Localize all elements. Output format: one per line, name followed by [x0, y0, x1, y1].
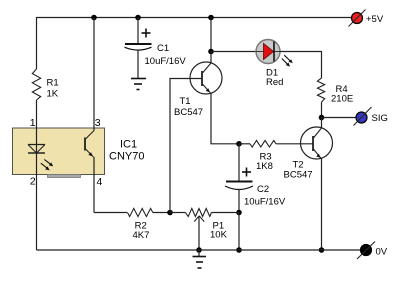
- wire R2 to base node: [153, 212, 170, 214]
- junction dot T2 emitter on 0V rail: [319, 247, 325, 253]
- svg-text:C2: C2: [257, 184, 269, 195]
- resistor R2: [128, 208, 153, 216]
- svg-text:10K: 10K: [210, 230, 228, 241]
- svg-text:4: 4: [97, 176, 103, 188]
- optocoupler IC1 body: [13, 128, 105, 175]
- potentiometer P1: [186, 209, 212, 251]
- svg-text:BC547: BC547: [284, 170, 313, 181]
- wire base node to P1: [170, 212, 186, 214]
- wire 0V rail: [37, 249, 361, 251]
- wire SIG node to T2 collector: [321, 118, 323, 129]
- wire +5V rail to R1: [36, 17, 38, 69]
- junction dot pin3 on +5V rail: [91, 15, 97, 21]
- svg-text:BC547: BC547: [174, 107, 203, 118]
- junction dot C1 on +5V rail: [135, 15, 141, 21]
- wire C2 node to 0V rail: [238, 213, 240, 251]
- wire C1 to ground: [137, 50, 139, 79]
- svg-text:4K7: 4K7: [133, 230, 150, 241]
- IC1 light arrows: [41, 159, 53, 170]
- svg-text:T1: T1: [180, 96, 191, 107]
- transistor T2: [301, 127, 333, 159]
- svg-text:10uF/16V: 10uF/16V: [244, 197, 286, 208]
- transistor T1: [190, 62, 222, 94]
- wire pin3 to +5V rail: [93, 18, 95, 131]
- diode LED inside IC1: [28, 145, 45, 154]
- terminal SIG: [354, 107, 372, 126]
- junction dot T1 collector on +5V rail: [208, 15, 214, 21]
- junction dot P1 right / C2: [236, 210, 242, 216]
- terminal 0V: [357, 242, 375, 260]
- junction dot SIG node: [319, 115, 325, 121]
- junction dot C2 on 0V rail: [236, 247, 242, 253]
- ground under C1: [131, 79, 146, 90]
- ground under P1 wiper: [193, 250, 207, 268]
- resistor R3: [250, 140, 276, 147]
- wire +5V rail: [37, 17, 352, 19]
- svg-text:CNY70: CNY70: [109, 151, 144, 163]
- svg-text:IC1: IC1: [120, 139, 137, 151]
- junction dot P1 wiper on 0V rail: [196, 247, 202, 253]
- wire node A to T1 collector: [210, 52, 212, 64]
- svg-text:1K8: 1K8: [256, 161, 273, 172]
- svg-text:210E: 210E: [331, 94, 353, 105]
- resistor R4: [317, 78, 324, 102]
- IC1 slot marker: [48, 175, 81, 178]
- wire T1 base: [170, 79, 202, 213]
- junction dot base node: [167, 210, 173, 216]
- svg-text:2: 2: [30, 176, 36, 188]
- wire pin4 down: [93, 157, 95, 213]
- wire IC1 LED chain pin1 to pin2: [36, 128, 38, 250]
- phototransistor inside IC1: [85, 131, 94, 158]
- capacitor C1: [125, 29, 152, 51]
- terminal +5V: [349, 10, 366, 27]
- svg-text:0V: 0V: [376, 247, 388, 258]
- svg-text:SIG: SIG: [372, 113, 388, 124]
- wire T2 emitter to 0V rail: [321, 159, 323, 251]
- wire P1 to C2 node: [212, 212, 240, 214]
- resistor R1: [32, 69, 40, 100]
- wire R1 to IC1 pin 1: [36, 100, 38, 128]
- svg-text:C1: C1: [157, 43, 169, 54]
- wire R3 to T2 base: [276, 143, 313, 145]
- wire node A to D1: [211, 51, 257, 53]
- wire C2 to P1 node: [238, 189, 240, 213]
- wire R4 to SIG node: [321, 102, 323, 117]
- D1 light arrows: [282, 55, 293, 66]
- junction dot R3/C2 node: [236, 141, 242, 147]
- svg-text:Red: Red: [266, 77, 283, 88]
- wire SIG node to terminal: [322, 117, 357, 119]
- svg-text:1: 1: [30, 117, 36, 129]
- wire pin4 to R2: [94, 212, 127, 214]
- led D1: [256, 40, 280, 64]
- capacitor C2: [225, 144, 253, 190]
- junction dot node A: [208, 49, 214, 55]
- wire +5V rail to C1: [137, 18, 139, 44]
- svg-text:+5V: +5V: [366, 14, 384, 25]
- wire T1 emitter to R3 node: [211, 93, 239, 144]
- svg-text:3: 3: [95, 117, 101, 129]
- svg-text:1K: 1K: [47, 89, 59, 100]
- wire D1 to R4: [280, 52, 322, 79]
- wire +5V rail to node A: [210, 18, 212, 52]
- wire node to R3: [239, 143, 250, 145]
- svg-text:R1: R1: [47, 78, 59, 89]
- svg-text:10uF/16V: 10uF/16V: [145, 56, 187, 67]
